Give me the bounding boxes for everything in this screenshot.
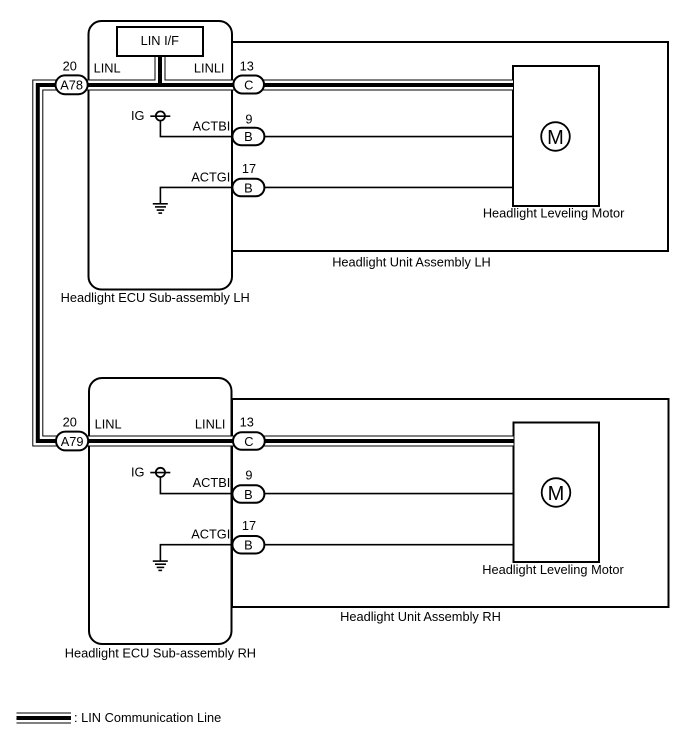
wire ACTGI pin to motor LH	[264, 186, 513, 188]
wire ACTBI pin to motor LH	[264, 136, 513, 138]
svg-text:A78: A78	[60, 78, 83, 93]
wire IG to ACTBI pin LH	[160, 121, 233, 137]
pin 17 B LH	[232, 179, 264, 197]
svg-text:20: 20	[63, 414, 77, 429]
LIN communication line main path	[38, 85, 514, 441]
IG power symbol LH	[150, 111, 170, 120]
LIN I/F stub outline	[155, 56, 166, 88]
svg-text:ACTBI: ACTBI	[193, 118, 231, 133]
Headlight ECU Sub-assembly LH box	[89, 21, 233, 290]
svg-text:LINLI: LINLI	[195, 417, 226, 432]
svg-text:Headlight Leveling Motor: Headlight Leveling Motor	[483, 205, 625, 220]
wire ACTBI pin to motor RH	[264, 493, 514, 495]
pin 13 C LH	[233, 76, 264, 94]
svg-text:ACTBI: ACTBI	[193, 475, 231, 490]
pin 13 C RH	[233, 432, 265, 450]
wire ACTGI pin to motor RH	[264, 544, 514, 546]
connector A79	[56, 432, 88, 451]
wire ACTGI pin to ground RH	[160, 545, 233, 561]
Headlight ECU Sub-assembly RH box	[89, 378, 232, 644]
Headlight Leveling Motor box RH	[514, 423, 600, 563]
svg-text:B: B	[244, 129, 253, 144]
svg-text:A79: A79	[61, 434, 84, 449]
svg-text:LINL: LINL	[95, 417, 122, 432]
svg-text:IG: IG	[131, 464, 145, 479]
svg-text:Headlight Unit Assembly RH: Headlight Unit Assembly RH	[340, 609, 501, 624]
LIN I/F block U1	[117, 27, 203, 56]
svg-text:Headlight Leveling Motor: Headlight Leveling Motor	[482, 562, 624, 577]
motor M1 symbol LH	[541, 122, 570, 151]
svg-text:C: C	[244, 434, 253, 449]
svg-text:LINL: LINL	[94, 61, 121, 76]
svg-text:LIN I/F: LIN I/F	[141, 33, 180, 48]
pin 17 B RH	[232, 536, 264, 554]
connector A78	[56, 75, 88, 94]
svg-text:Headlight ECU Sub-assembly RH: Headlight ECU Sub-assembly RH	[65, 645, 256, 660]
svg-text:20: 20	[63, 58, 77, 73]
svg-text:B: B	[244, 180, 253, 195]
pin 9 B LH	[232, 128, 264, 146]
ground symbol LH	[153, 204, 168, 213]
svg-text:: LIN Communication Line: : LIN Communication Line	[74, 710, 221, 725]
svg-text:LINLI: LINLI	[194, 61, 225, 76]
svg-text:M: M	[548, 483, 565, 505]
Headlight Leveling Motor box LH	[513, 66, 599, 206]
Headlight Unit Assembly RH box	[232, 399, 669, 607]
svg-text:9: 9	[245, 111, 252, 126]
svg-text:17: 17	[242, 518, 256, 533]
wire ACTGI pin to ground LH	[160, 187, 233, 203]
svg-text:IG: IG	[131, 108, 145, 123]
ground symbol RH	[153, 561, 168, 570]
svg-text:13: 13	[240, 59, 254, 74]
svg-text:C: C	[244, 77, 253, 92]
pin 9 B RH	[232, 485, 264, 503]
svg-text:ACTGI: ACTGI	[191, 170, 230, 185]
svg-text:B: B	[244, 538, 253, 553]
legend LIN line symbol	[17, 713, 72, 724]
svg-text:17: 17	[242, 161, 256, 176]
svg-text:Headlight Unit Assembly LH: Headlight Unit Assembly LH	[332, 254, 491, 269]
svg-text:M: M	[547, 127, 564, 149]
svg-text:B: B	[244, 487, 253, 502]
motor M2 symbol RH	[542, 478, 571, 507]
svg-text:Headlight ECU Sub-assembly LH: Headlight ECU Sub-assembly LH	[61, 290, 250, 305]
svg-text:9: 9	[245, 467, 252, 482]
IG power symbol RH	[150, 468, 170, 477]
svg-text:13: 13	[240, 415, 254, 430]
svg-text:ACTGI: ACTGI	[191, 526, 230, 541]
Headlight Unit Assembly LH box	[232, 42, 668, 251]
wire IG to ACTBI pin RH	[160, 477, 233, 494]
